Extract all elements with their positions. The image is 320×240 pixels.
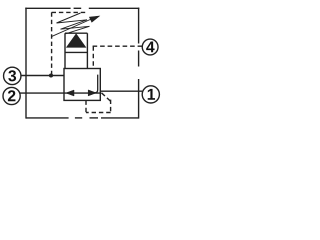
port 2 label	[8, 90, 16, 101]
wire: manifold boundary bottom	[26, 117, 139, 119]
port 3 label	[8, 70, 16, 81]
port 2 circle	[3, 87, 20, 104]
wire: port 2 line into valve (collinear with spool arrow line)	[20, 92, 100, 94]
main valve spool box	[64, 69, 100, 101]
pilot supply: dashed path from port 1 line under spool box	[86, 93, 111, 113]
port 3 circle	[4, 67, 21, 84]
wire: port 1 line	[100, 90, 142, 92]
adjustable spring (zigzag)	[57, 13, 90, 34]
relief poppet (filled triangle)	[67, 34, 86, 47]
pilot line: port 4 dashed vent line	[93, 46, 143, 68]
port 4 label	[146, 42, 154, 53]
adjustment arrow shaft	[52, 19, 93, 37]
poppet seat line	[65, 51, 87, 53]
spool flow path: internal vertical from pilot	[95, 75, 98, 93]
wire: manifold boundary top	[25, 7, 139, 9]
port 1 circle	[142, 86, 159, 103]
wire: manifold boundary left	[25, 8, 27, 119]
wire: port 3 line	[21, 75, 65, 77]
spool arrow head left (to port 3)	[66, 90, 74, 96]
pilot relief poppet box	[65, 33, 87, 68]
spool arrow head right (to port 1)	[88, 90, 96, 96]
port 1 label	[148, 89, 155, 100]
pilot drain: dashed line from spring chamber to port 3 line	[52, 12, 88, 75]
adjustment arrow head	[89, 16, 99, 22]
junction dot on port 3 line	[49, 73, 53, 77]
port 4 circle	[142, 39, 158, 55]
wire: manifold boundary right	[138, 8, 140, 119]
